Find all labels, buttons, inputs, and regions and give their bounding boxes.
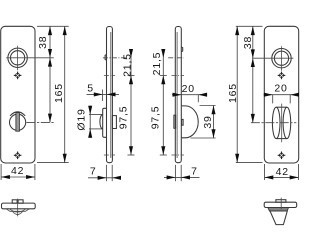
dimension 7 profile 2 [88, 176, 121, 180]
svg-text:97,5: 97,5 [117, 106, 129, 130]
label 5 [87, 83, 94, 95]
svg-text:39: 39 [202, 115, 214, 128]
svg-text:42: 42 [276, 166, 289, 178]
profile 2 rose flange bump [105, 55, 106, 61]
label 38 right [242, 36, 254, 49]
label 97,5 profile 2 [117, 106, 129, 130]
profile 3 boss [174, 115, 176, 128]
profile 2 spindle nut [112, 116, 116, 129]
profile 2 bottom screw dash line [104, 154, 115, 156]
profile 3 rose center dash line [168, 57, 184, 59]
svg-text:20: 20 [182, 83, 195, 95]
dimension 20 right plate [264, 93, 300, 104]
svg-text:7: 7 [191, 165, 198, 177]
extension line 5 profile 2 [102, 90, 104, 102]
left rose vertical center line [17, 46, 19, 71]
profile 3 clip bump [181, 47, 182, 52]
right rose inner circle [274, 51, 288, 65]
dimension line dia19 [88, 106, 92, 139]
label 20 profile 3 [182, 83, 195, 95]
dia19 extension lines [89, 115, 102, 129]
top extension line left [37, 25, 69, 27]
profile 2 inner wall line [110, 32, 112, 158]
profile 2 thumbturn rose cup [103, 108, 107, 137]
right rose vertical center line [281, 46, 283, 70]
svg-text:97,5: 97,5 [150, 106, 162, 130]
right rose outer circle [272, 49, 291, 68]
svg-text:7: 7 [90, 165, 97, 177]
label 42 right [276, 166, 289, 178]
end view right knob [270, 211, 287, 225]
profile 2 top screw dash line [104, 74, 115, 76]
svg-text:Ø19: Ø19 [76, 108, 88, 130]
label 97,5 profile 3 [150, 106, 162, 130]
release cylinder right ellipse [283, 107, 291, 138]
release cylinder top and bottom lines [276, 107, 287, 138]
thumbturn circle [10, 114, 26, 130]
label 7 profile 3 [191, 165, 198, 177]
dimension line 38 left [48, 26, 52, 122]
label 21,5 profile 2 [121, 53, 133, 77]
left rose horizontal center line [6, 57, 54, 59]
label dia19 [76, 108, 88, 130]
profile 3 inner wall line [176, 32, 178, 158]
width extension lines left plate [1, 164, 35, 180]
left plate top screw [14, 72, 22, 80]
dimension line 38 right [251, 26, 255, 122]
svg-text:21,5: 21,5 [121, 53, 133, 77]
svg-text:5: 5 [87, 83, 94, 95]
left rose inner circle [11, 51, 25, 65]
depth extension lines profile 3 [175, 165, 181, 181]
label 165 left [53, 83, 65, 103]
end view left center line [17, 199, 19, 217]
profile 3 hub step [182, 119, 184, 125]
svg-text:38: 38 [242, 36, 254, 49]
profile 2 rose center dash line [103, 57, 127, 59]
end view right tab [276, 200, 286, 203]
end view left bar [2, 203, 36, 209]
label 7 profile 2 [90, 165, 97, 177]
label 39 [202, 115, 214, 128]
dimension 5 profile 2 [87, 92, 120, 96]
label 38 left [37, 36, 49, 49]
end view left wing arc [12, 211, 22, 214]
profile 2 bar [107, 27, 113, 163]
top extension line right [236, 25, 263, 27]
release cylinder left ellipse [272, 107, 280, 138]
svg-text:20: 20 [274, 83, 287, 95]
dimension line 165 right [235, 26, 239, 162]
right plate top screw [278, 72, 286, 80]
thumbturn cap arc [10, 112, 25, 116]
39 extension lines [191, 106, 216, 139]
bottom extension line left [37, 162, 69, 164]
dimension line 42 right [265, 175, 299, 179]
svg-text:42: 42 [11, 165, 24, 177]
profile 3 bottom screw dash line [172, 154, 185, 156]
svg-text:165: 165 [227, 83, 239, 103]
left rose outer circle [8, 48, 27, 67]
end view right center line [280, 198, 282, 210]
left plate bottom screw [14, 152, 22, 160]
dimension line 42 left [1, 175, 35, 179]
profile 2 right dimension line [128, 49, 135, 155]
profile 2 thumbturn knob face [100, 115, 103, 129]
right plate outline [264, 26, 298, 163]
dimension line 165 left [63, 26, 67, 162]
left plate outline [1, 26, 35, 163]
end view left rose arc inner [9, 209, 26, 212]
svg-text:38: 38 [37, 36, 49, 49]
depth extension lines profile 2 [106, 165, 112, 181]
width extension lines right plate [265, 164, 299, 180]
dimension line 39 [211, 106, 215, 139]
end view right bar [264, 202, 297, 207]
right plate bottom screw [278, 152, 286, 160]
label 42 left [11, 165, 24, 177]
thumbturn grip bar [16, 113, 20, 132]
dimension 20 profile 3 [172, 93, 207, 103]
dimension 7 profile 3 [164, 175, 200, 179]
bottom extension line right [236, 162, 263, 164]
label 21,5 profile 3 [151, 52, 163, 76]
svg-text:21,5: 21,5 [151, 52, 163, 76]
svg-text:165: 165 [53, 83, 65, 103]
profile 3 release knob bump [182, 106, 199, 138]
release horizontal center line [251, 122, 296, 124]
label 20 right plate [274, 83, 287, 95]
end view right flange [268, 208, 289, 212]
end view left rose arc outer [6, 209, 30, 212]
profile 3 bar [175, 27, 181, 163]
end view left grip tabs [12, 200, 23, 203]
thumbturn center extension line [26, 121, 53, 123]
label 165 right [227, 83, 239, 103]
release vertical center line [281, 104, 283, 143]
profile 3 left dimension line [160, 49, 167, 155]
right rose horizontal center line [252, 57, 293, 59]
profile 3 top screw dash line [172, 74, 185, 76]
